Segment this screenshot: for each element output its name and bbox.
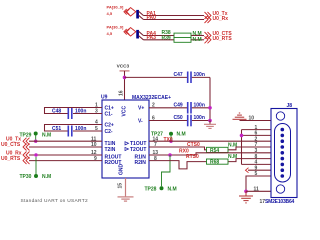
wire PA1 <box>139 11 204 15</box>
junction C50 right <box>208 119 212 123</box>
wire J8 pin 1 <box>242 129 272 131</box>
svg-text:N.M: N.M <box>168 186 177 192</box>
wire U0_CTS to pin 10 <box>29 146 102 148</box>
svg-text:PA[30..0]: PA[30..0] <box>107 25 124 30</box>
wire RX0 (pin 13 to J8 pin 3) <box>149 153 271 155</box>
svg-text:TP30: TP30 <box>20 174 32 180</box>
capacitor C51 (wires pins 4,5) <box>45 125 103 137</box>
junction VCC3/C47 <box>123 76 127 80</box>
svg-text:T2OUT: T2OUT <box>130 147 146 153</box>
wire CTS0 (pin 7 to R54) <box>149 147 271 150</box>
net label PA[30..0] (lower bus) <box>107 25 124 36</box>
wire loopback DCD/DSR/DTR vertical <box>241 130 243 165</box>
svg-text:VCC3: VCC3 <box>117 64 130 69</box>
svg-text:5: 5 <box>255 171 258 177</box>
svg-text:U0_CTS: U0_CTS <box>1 142 21 148</box>
svg-text:100n: 100n <box>194 103 205 109</box>
svg-text:100n: 100n <box>75 126 86 132</box>
svg-text:R39: R39 <box>162 35 171 41</box>
test point TP29 <box>20 132 52 142</box>
svg-text:16: 16 <box>118 90 124 96</box>
svg-text:U0_RTS: U0_RTS <box>1 156 21 162</box>
bus segment PA (lower, blue) <box>136 30 139 39</box>
net label PA[30..0] (upper bus) <box>107 5 124 16</box>
svg-text:TP28: TP28 <box>145 186 157 192</box>
svg-text:10: 10 <box>249 115 255 121</box>
wire RTS0 (pin 8 to R68) <box>149 159 271 169</box>
svg-text:TP27: TP27 <box>151 132 163 138</box>
part number label (J8) <box>260 199 295 205</box>
svg-text:11: 11 <box>254 187 260 193</box>
svg-text:15: 15 <box>117 183 123 189</box>
svg-text:C1-: C1- <box>105 111 113 117</box>
wire J8 pin 9 (no connect arrow) <box>246 168 272 173</box>
port chevrons U0_CTS / U0_RTS <box>205 32 212 43</box>
test point TP27 <box>151 132 186 142</box>
svg-text:N.M: N.M <box>177 132 186 138</box>
junction shield/pin 11 <box>244 190 248 194</box>
svg-text:V+: V+ <box>138 106 144 112</box>
wire pin 15 to ground <box>125 178 127 196</box>
svg-text:100n: 100n <box>75 109 86 115</box>
test point TP28 <box>145 155 177 192</box>
wire PA0 <box>139 15 204 19</box>
svg-text:V-: V- <box>138 118 143 124</box>
wire U0_Rx to pin 12 <box>29 154 102 156</box>
svg-text:C48: C48 <box>52 109 61 115</box>
junction TP30/U0_Rx <box>34 153 37 156</box>
svg-text:CTS0: CTS0 <box>187 142 200 148</box>
wire J8 pin 6 <box>242 134 272 136</box>
wire PA4 <box>139 31 204 35</box>
svg-text:N.M: N.M <box>228 142 237 148</box>
svg-text:U0_RTS: U0_RTS <box>213 36 233 42</box>
wire PA3 <box>139 36 204 40</box>
wire U0_Tx to pin 11 <box>29 140 102 142</box>
power port VCC3 <box>117 64 130 71</box>
junction TP27/TX0 <box>169 140 172 143</box>
junction TP29/U0_Tx <box>34 140 37 143</box>
svg-text:Standard UART on USART2: Standard UART on USART2 <box>21 198 88 204</box>
wire TX0 (pin 14 to J8 pin 2) <box>149 140 271 142</box>
port chevron U0_RTS (left) <box>23 157 30 164</box>
connector J8 (DB9) <box>271 103 297 197</box>
J8 pin contact dots <box>281 128 285 178</box>
svg-text:MAX3232ECAE+: MAX3232ECAE+ <box>132 95 171 101</box>
bus entry symbol (upper) <box>124 8 136 16</box>
svg-text:100n: 100n <box>194 72 205 78</box>
wire V- pin 6 row <box>149 120 210 122</box>
svg-text:RTS0: RTS0 <box>186 154 199 160</box>
svg-text:TP29: TP29 <box>20 133 32 139</box>
ground (J8 pin 10) <box>233 113 247 119</box>
port chevron U0_CTS (left) <box>23 144 30 151</box>
ground (U9 GND) <box>118 197 134 201</box>
wire J8 pin 4 <box>242 163 272 165</box>
svg-text:100n: 100n <box>194 115 205 121</box>
bus entry symbol (lower) <box>124 28 136 36</box>
capacitor C47 <box>174 72 205 84</box>
resistor R39 <box>162 35 192 42</box>
capacitor C49 <box>174 102 205 114</box>
port chevrons U0_Tx / U0_Rx <box>205 12 212 23</box>
svg-text:R68: R68 <box>210 160 219 166</box>
svg-text:4,5: 4,5 <box>107 31 113 36</box>
svg-text:C49: C49 <box>174 103 183 109</box>
svg-text:PA[30..0]: PA[30..0] <box>107 5 124 10</box>
resistor R68 <box>207 159 229 166</box>
capacitor C50 <box>174 115 205 127</box>
svg-text:C47: C47 <box>174 72 183 78</box>
svg-text:VCC: VCC <box>122 106 128 117</box>
svg-text:TX0: TX0 <box>164 137 173 143</box>
svg-text:SM2E103B64: SM2E103B64 <box>265 199 295 205</box>
wire V+ pin 2 row <box>149 107 210 109</box>
svg-text:GND: GND <box>119 164 125 176</box>
wire VCC3 to pin 16 <box>124 71 126 100</box>
junction loopback pin 6 <box>240 134 244 138</box>
capacitor C48 (wires pins 1,3) <box>45 108 103 120</box>
wire C47 row <box>125 76 211 78</box>
svg-text:J8: J8 <box>287 103 293 109</box>
svg-text:N.M: N.M <box>228 154 237 160</box>
wire right vertical (cap common) <box>209 77 211 120</box>
wire J8 pin 11 <box>246 190 271 192</box>
svg-text:C50: C50 <box>174 115 183 121</box>
svg-text:N.M: N.M <box>42 133 51 139</box>
wire J8 pin 5 to ground bus <box>246 176 271 191</box>
svg-text:T2IN: T2IN <box>105 147 116 153</box>
svg-text:PA0: PA0 <box>147 15 157 21</box>
svg-text:N.M: N.M <box>193 31 202 37</box>
svg-text:C2-: C2- <box>105 129 113 135</box>
port chevron U0_Rx (left) <box>23 152 30 159</box>
wire U0_RTS to pin 9 <box>29 160 102 162</box>
svg-text:R2IN: R2IN <box>135 160 147 166</box>
svg-text:4,5: 4,5 <box>107 11 113 16</box>
bus segment PA (upper, blue) <box>136 10 139 19</box>
svg-text:U0_Rx: U0_Rx <box>213 16 229 22</box>
resistor R38 <box>162 30 192 38</box>
svg-text:C2+: C2+ <box>105 122 114 128</box>
junction C49 right <box>208 106 212 110</box>
svg-text:PA3: PA3 <box>147 35 157 41</box>
ground (J8 shield) <box>239 191 253 203</box>
svg-text:C51: C51 <box>52 126 61 132</box>
ground (caps common) <box>204 121 216 129</box>
test point TP30 <box>20 157 52 180</box>
svg-text:U9: U9 <box>101 95 108 101</box>
resistor R54 <box>207 147 229 154</box>
port chevron U0_Tx (left) <box>23 138 30 145</box>
svg-text:N.M: N.M <box>193 37 202 43</box>
svg-text:N.M: N.M <box>42 174 51 180</box>
IC U9 MAX3232ECAE+ <box>101 95 171 178</box>
junction TP28/RX0 <box>168 153 172 157</box>
wire J8 pin 10 <box>240 120 272 122</box>
